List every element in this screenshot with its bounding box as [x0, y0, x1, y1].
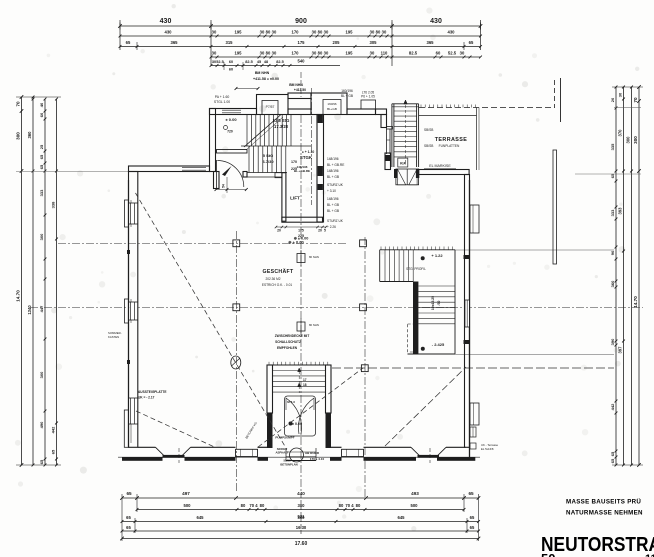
svg-text:80: 80 [356, 503, 361, 508]
svg-text:● + 1.10: ● + 1.10 [302, 150, 315, 154]
svg-text:202.36 M2: 202.36 M2 [265, 277, 280, 281]
svg-text:335: 335 [610, 143, 615, 150]
svg-text:+ 3.10: + 3.10 [327, 189, 336, 193]
svg-text:MASSE BAUSEITS PRÜ: MASSE BAUSEITS PRÜ [566, 499, 641, 506]
svg-text:80: 80 [376, 30, 381, 35]
svg-text:300: 300 [298, 503, 306, 508]
svg-text:BETONPLAN: BETONPLAN [280, 463, 297, 467]
svg-text:KASTEN: KASTEN [108, 335, 119, 339]
svg-text:54: 54 [222, 184, 226, 188]
svg-text:300: 300 [39, 233, 44, 240]
svg-text:500: 500 [184, 503, 192, 508]
svg-text:STGI PROFIL: STGI PROFIL [406, 267, 426, 271]
svg-text:± 0.00: ± 0.00 [292, 422, 302, 426]
svg-text:20: 20 [610, 97, 615, 102]
svg-text:ESTRICH O.K. - 0.01: ESTRICH O.K. - 0.01 [262, 283, 293, 287]
svg-text:195: 195 [235, 51, 243, 56]
svg-text:160/196: 160/196 [341, 89, 353, 93]
svg-text:EL 5x16/8: EL 5x16/8 [481, 447, 494, 451]
svg-text:FUNPLATTEN: FUNPLATTEN [439, 144, 460, 148]
svg-text:52.5: 52.5 [448, 51, 457, 56]
svg-text:NATURMASSE NEHMEN: NATURMASSE NEHMEN [566, 510, 643, 517]
svg-text:65: 65 [126, 525, 131, 530]
svg-text:720: 720 [227, 130, 233, 134]
svg-text:30: 30 [312, 51, 317, 56]
svg-text:30: 30 [382, 30, 387, 35]
svg-text:30: 30 [460, 51, 465, 56]
svg-text:315: 315 [226, 40, 234, 45]
svg-text:+ 1.22: + 1.22 [431, 253, 443, 258]
svg-text:170: 170 [292, 51, 300, 56]
svg-text:STGL 1.00: STGL 1.00 [214, 100, 230, 104]
svg-text:447: 447 [39, 305, 44, 312]
svg-text:25: 25 [39, 144, 44, 149]
svg-text:30: 30 [272, 51, 277, 56]
svg-text:- 2.425: - 2.425 [432, 342, 445, 347]
svg-text:175: 175 [298, 229, 304, 233]
svg-text:NEUTORSTRA: NEUTORSTRA [541, 534, 654, 556]
svg-text:+ 2.26: + 2.26 [327, 225, 336, 229]
svg-text:430: 430 [160, 18, 172, 25]
svg-text:UK = - 2.17: UK = - 2.17 [138, 396, 155, 400]
svg-text:30: 30 [324, 30, 329, 35]
svg-text:70 4: 70 4 [249, 503, 258, 508]
svg-text:BL + GB.RE: BL + GB.RE [327, 163, 344, 167]
svg-text:70: 70 [16, 101, 21, 107]
svg-text:82.5: 82.5 [276, 60, 283, 64]
svg-text:+411.58 = ±0.00: +411.58 = ±0.00 [253, 77, 279, 81]
svg-text:430: 430 [165, 30, 173, 35]
svg-text:5 StG: 5 StG [263, 153, 273, 158]
svg-text:M 6.3: M 6.3 [287, 400, 295, 404]
svg-text:60: 60 [229, 68, 233, 72]
svg-text:PUMPSUMPF: PUMPSUMPF [275, 436, 294, 440]
svg-text:900: 900 [295, 18, 307, 25]
svg-text:90: 90 [610, 250, 615, 255]
svg-text:17.60: 17.60 [295, 541, 308, 547]
svg-text:170: 170 [292, 30, 300, 35]
svg-text:65: 65 [470, 515, 475, 520]
svg-text:80: 80 [318, 51, 323, 56]
svg-text:195: 195 [235, 30, 243, 35]
svg-text:14.70: 14.70 [16, 290, 21, 302]
svg-text:PA + 1.60: PA + 1.60 [215, 95, 230, 99]
svg-text:EL MARKISE: EL MARKISE [429, 164, 451, 168]
svg-text:+411.50: +411.50 [294, 88, 306, 92]
svg-text:45: 45 [257, 60, 261, 64]
svg-text:65: 65 [126, 40, 131, 45]
svg-text:ZWISCHENDECKE MIT: ZWISCHENDECKE MIT [275, 334, 310, 338]
svg-text:20: 20 [277, 229, 281, 233]
svg-text:493: 493 [411, 491, 419, 496]
svg-text:BL + GB: BL + GB [327, 209, 339, 213]
svg-text:13.5 StG: 13.5 StG [273, 118, 290, 123]
svg-text:645: 645 [197, 515, 205, 520]
svg-text:390: 390 [610, 338, 615, 345]
svg-text:30: 30 [260, 51, 265, 56]
svg-text:65: 65 [469, 40, 474, 45]
svg-text:SCHALLSCHUTZ: SCHALLSCHUTZ [275, 340, 301, 344]
svg-text:1340: 1340 [27, 305, 32, 315]
svg-text:STURZ UK: STURZ UK [327, 183, 344, 187]
svg-text:430: 430 [448, 30, 456, 35]
svg-text:70 4: 70 4 [345, 503, 354, 508]
svg-text:305: 305 [370, 40, 378, 45]
svg-text:80: 80 [266, 51, 271, 56]
svg-text:80: 80 [241, 503, 246, 508]
svg-text:30: 30 [272, 30, 277, 35]
svg-text:14.70: 14.70 [633, 296, 638, 308]
svg-text:30: 30 [312, 30, 317, 35]
svg-text:70: 70 [633, 97, 638, 103]
svg-text:30: 30 [212, 51, 217, 56]
svg-text:BM NHN: BM NHN [255, 71, 270, 75]
svg-text:160/96: 160/96 [327, 102, 337, 106]
svg-text:18: 18 [303, 383, 307, 387]
svg-text:360: 360 [27, 131, 32, 139]
svg-text:BL+GB: BL+GB [327, 107, 337, 111]
svg-text:6.7/30: 6.7/30 [262, 159, 274, 164]
svg-text:65: 65 [610, 458, 615, 463]
svg-text:30: 30 [324, 51, 329, 56]
svg-text:205: 205 [333, 40, 341, 45]
svg-text:65: 65 [126, 491, 132, 496]
svg-text:BL + GB: BL + GB [327, 203, 339, 207]
svg-text:30: 30 [260, 30, 265, 35]
svg-text:397: 397 [618, 346, 623, 354]
svg-text:P7/57: P7/57 [266, 105, 275, 109]
svg-text:170: 170 [291, 160, 297, 164]
svg-text:17.3/28: 17.3/28 [274, 124, 289, 129]
svg-text:BL + GB: BL + GB [327, 175, 339, 179]
svg-text:80: 80 [260, 503, 265, 508]
svg-text:442: 442 [610, 403, 615, 410]
svg-text:175: 175 [298, 40, 306, 45]
svg-text:BL.+GB.RE: BL.+GB.RE [294, 169, 310, 173]
svg-text:KIA: KIA [400, 162, 406, 166]
svg-text:60: 60 [39, 112, 44, 117]
svg-text:82.5: 82.5 [409, 51, 418, 56]
svg-text:442: 442 [51, 426, 56, 433]
svg-text:ASPHALT: ASPHALT [276, 451, 289, 455]
svg-text:60: 60 [229, 60, 233, 64]
svg-text:430: 430 [430, 18, 442, 25]
svg-text:65: 65 [126, 515, 131, 520]
svg-text:80: 80 [339, 503, 344, 508]
svg-text:P6 + 1.05: P6 + 1.05 [361, 95, 375, 99]
svg-text:148/196: 148/196 [327, 197, 339, 201]
svg-text:52.5: 52.5 [216, 60, 223, 64]
svg-text:/30: /30 [437, 301, 441, 306]
svg-text:11: 11 [645, 553, 654, 557]
svg-text:645: 645 [398, 515, 406, 520]
svg-text:333: 333 [610, 209, 615, 216]
svg-text:497: 497 [182, 491, 190, 496]
svg-text:80: 80 [318, 30, 323, 35]
svg-text:490: 490 [39, 421, 44, 428]
svg-text:50: 50 [541, 551, 555, 557]
svg-text:LIFT: LIFT [290, 196, 300, 201]
svg-text:338: 338 [51, 201, 56, 208]
svg-text:65: 65 [468, 491, 474, 496]
svg-text:SB/SB: SB/SB [424, 128, 433, 132]
svg-text:148/196: 148/196 [327, 169, 339, 173]
svg-text:EMPFOHLEN: EMPFOHLEN [277, 346, 298, 350]
svg-text:65: 65 [39, 164, 44, 169]
svg-text:195: 195 [346, 30, 354, 35]
svg-text:370: 370 [618, 129, 623, 137]
svg-text:10x16.25: 10x16.25 [431, 296, 435, 310]
svg-text:30: 30 [212, 30, 217, 35]
svg-text:30: 30 [370, 51, 375, 56]
svg-text:365: 365 [171, 40, 179, 45]
svg-text:148/196: 148/196 [327, 157, 339, 161]
svg-text:30: 30 [618, 92, 623, 97]
svg-text:300: 300 [298, 515, 306, 520]
svg-text:300: 300 [633, 136, 638, 144]
svg-text:300: 300 [626, 136, 631, 144]
svg-text:GESCHÄFT: GESCHÄFT [263, 268, 294, 275]
svg-text:393: 393 [618, 207, 623, 215]
svg-text:48: 48 [264, 60, 268, 64]
svg-text:65: 65 [39, 154, 44, 159]
svg-text:SB/SB: SB/SB [424, 144, 433, 148]
svg-text:± 0.00: ± 0.00 [225, 117, 237, 122]
svg-text:500: 500 [411, 503, 419, 508]
svg-text:365: 365 [427, 40, 435, 45]
svg-text:30: 30 [370, 30, 375, 35]
svg-text:80 NHN: 80 NHN [309, 323, 319, 327]
svg-text:AUSSTEIGPLATTE: AUSSTEIGPLATTE [138, 390, 166, 394]
svg-text:82.5: 82.5 [245, 60, 252, 64]
svg-text:STGK: STGK [300, 155, 313, 160]
svg-text:60: 60 [436, 51, 441, 56]
svg-text:110: 110 [381, 51, 388, 56]
svg-text:65: 65 [610, 451, 615, 456]
svg-text:⊕ ± 0.00: ⊕ ± 0.00 [294, 237, 309, 241]
svg-text:5: 5 [324, 229, 326, 233]
svg-text:333: 333 [39, 189, 44, 196]
svg-text:80 NHN: 80 NHN [309, 255, 319, 259]
svg-text:STURZ UK: STURZ UK [327, 219, 344, 223]
svg-text:40: 40 [39, 102, 44, 107]
svg-text:80: 80 [266, 30, 271, 35]
svg-text:300: 300 [16, 132, 21, 140]
svg-text:300: 300 [39, 371, 44, 378]
svg-text:540: 540 [298, 59, 306, 64]
svg-text:TERRASSE: TERRASSE [435, 137, 468, 143]
svg-text:360: 360 [610, 280, 615, 287]
svg-text:65: 65 [51, 449, 56, 454]
svg-text:AB ROHR: AB ROHR [305, 451, 320, 455]
svg-text:16.30: 16.30 [296, 525, 307, 530]
svg-text:BL + GB: BL + GB [341, 94, 353, 98]
svg-text:65: 65 [39, 459, 44, 464]
svg-text:17: 17 [303, 378, 307, 382]
svg-text:LT6 2.05: LT6 2.05 [362, 91, 375, 95]
svg-text:20: 20 [318, 229, 322, 233]
svg-text:65: 65 [470, 525, 475, 530]
svg-text:195: 195 [346, 51, 354, 56]
